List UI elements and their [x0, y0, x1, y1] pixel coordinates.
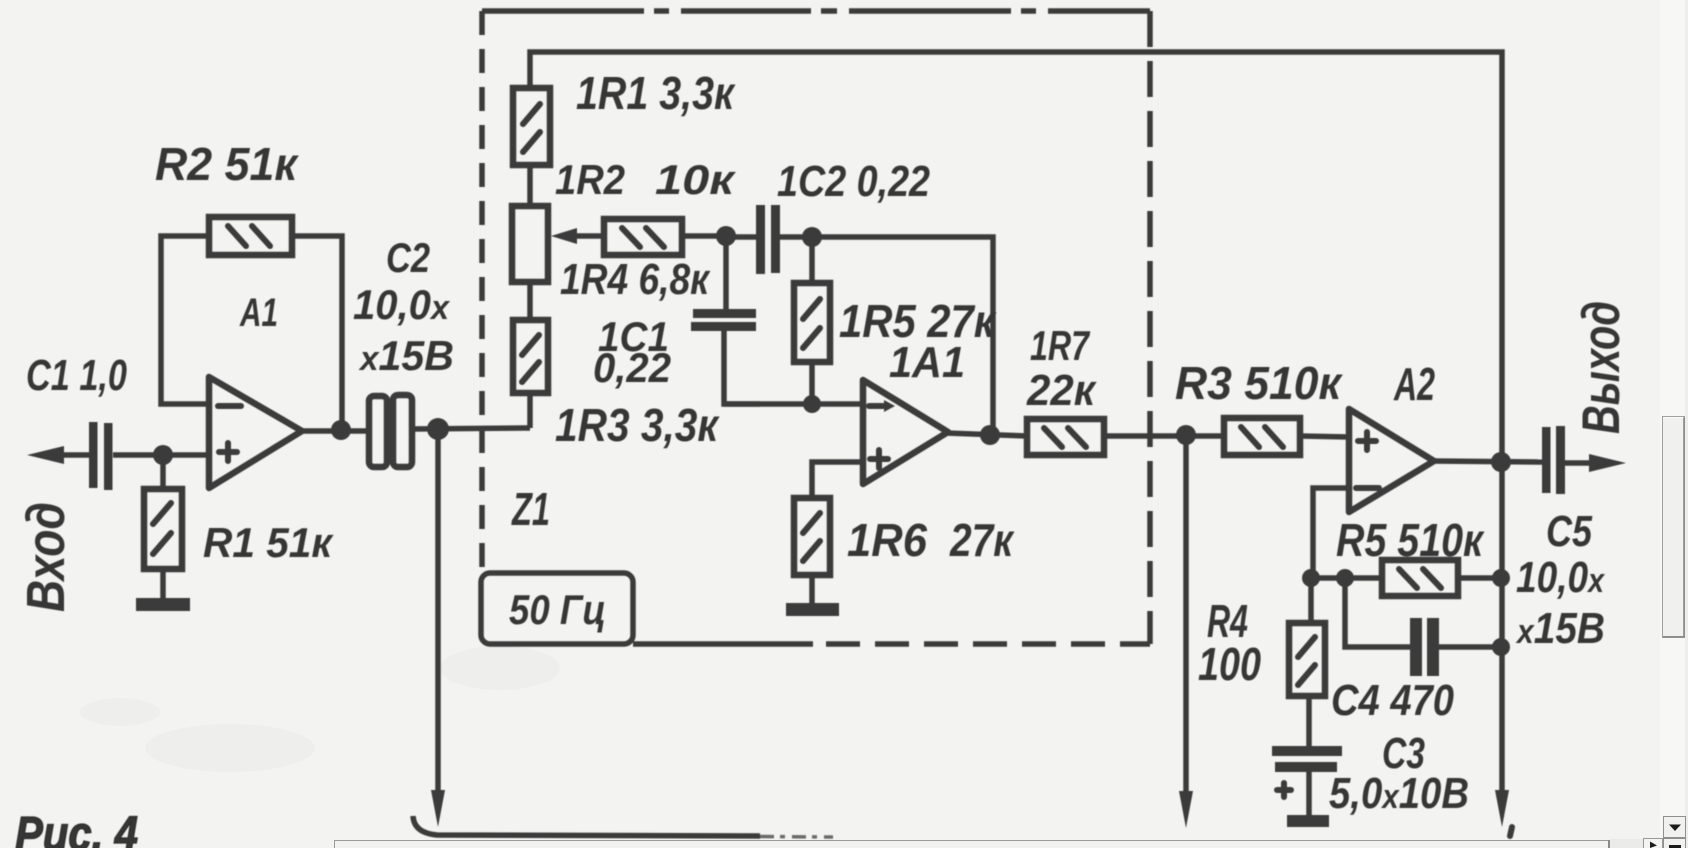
- svg-text:R2 51к: R2 51к: [155, 138, 300, 190]
- svg-text:A1: A1: [239, 291, 278, 335]
- node 1R4/1C1/1C2 junction: [716, 226, 736, 246]
- svg-text:1R7: 1R7: [1030, 322, 1090, 369]
- label C3 5,0x10В: [1329, 729, 1469, 818]
- node 1A1 minus input junction: [803, 395, 821, 413]
- svg-text:100: 100: [1198, 638, 1261, 690]
- label 1C1 0,22: [593, 313, 671, 391]
- top feedback wire A2 output to 1R1: [530, 52, 1502, 462]
- resistor R5: [1311, 560, 1502, 596]
- svg-text:1R2: 1R2: [555, 156, 625, 203]
- node A2 output: [1491, 452, 1511, 472]
- speck: [1510, 827, 1512, 836]
- resistor R1: [144, 455, 182, 600]
- node after C2: [427, 418, 449, 440]
- svg-text:C5: C5: [1546, 507, 1592, 556]
- wire A2 output: [1432, 461, 1543, 462]
- capacitor C5: [1542, 426, 1565, 494]
- wire node to A1 plus input: [163, 452, 209, 458]
- bottom scrollbar track piece: [1610, 839, 1643, 848]
- filter block Z1 dashed box: [482, 11, 1150, 644]
- svg-text:5,0x10В: 5,0x10В: [1329, 769, 1469, 818]
- bottom horizontal scrollbar long thumb: [335, 840, 1610, 848]
- bottom right arrow button: [1644, 839, 1663, 848]
- vertical scrollbar down button: [1664, 817, 1686, 838]
- capacitor C3 electrolytic: [1272, 746, 1342, 827]
- svg-text:0,22: 0,22: [593, 344, 671, 391]
- op-amp A1: [209, 377, 302, 488]
- node 1C2 right junction: [802, 227, 822, 247]
- output terminal arrow Выход: [1565, 454, 1626, 472]
- bottom corner button: [1664, 839, 1686, 848]
- label C2 10,0x x15В: [353, 234, 454, 379]
- node C4 branch junction: [1336, 569, 1354, 587]
- wire down from R3 node with arrow: [1179, 435, 1193, 828]
- svg-text:1C2 0,22: 1C2 0,22: [777, 157, 930, 206]
- resistor 1R1: [513, 88, 550, 206]
- svg-text:1R1 3,3к: 1R1 3,3к: [576, 67, 736, 119]
- wire 1A1 output: [946, 433, 1027, 436]
- wire A2 minus feedback: [1313, 488, 1349, 578]
- resistor 1R7: [1027, 419, 1104, 455]
- input terminal arrow Вход: [27, 446, 90, 464]
- svg-text:10к: 10к: [655, 156, 736, 203]
- svg-text:Рис. 4: Рис. 4: [15, 808, 138, 848]
- capacitor 1C1: [691, 236, 760, 404]
- resistor R4: [1289, 578, 1325, 748]
- resistor R3: [1224, 418, 1349, 455]
- resistor 1R6: [794, 498, 830, 604]
- svg-text:Выход: Выход: [1572, 301, 1631, 434]
- wire C2 to Z1 input: [412, 428, 530, 429]
- label R4 100: [1198, 595, 1261, 690]
- svg-text:50 Гц: 50 Гц: [509, 586, 606, 633]
- wire 1R7 to R3: [1104, 433, 1224, 439]
- capacitor C1: [89, 422, 163, 490]
- resistor R2: [209, 217, 292, 255]
- right scrollbar track: [1660, 0, 1688, 848]
- op-amp A2: [1349, 409, 1434, 512]
- svg-text:C2: C2: [386, 234, 430, 281]
- svg-text:R5 510к: R5 510к: [1336, 514, 1485, 566]
- svg-text:22к: 22к: [1026, 366, 1098, 415]
- capacitor 1C2: [726, 205, 812, 274]
- svg-text:1R3 3,3к: 1R3 3,3к: [555, 399, 720, 451]
- node C4 right on output line: [1492, 638, 1510, 656]
- svg-text:C4 470: C4 470: [1331, 676, 1454, 725]
- ground below 1R6: [786, 603, 839, 616]
- svg-text:1R6: 1R6: [847, 514, 927, 566]
- node R5 right on output line: [1492, 569, 1510, 587]
- vertical scrollbar thumb: [1663, 417, 1686, 638]
- ground below R1: [136, 598, 190, 611]
- wire down from C2 node with arrow: [431, 429, 445, 827]
- capacitor C4: [1345, 578, 1502, 676]
- svg-text:Вход: Вход: [16, 502, 76, 612]
- resistor 1R3: [513, 320, 548, 428]
- node input junction: [153, 445, 173, 465]
- svg-text:x15В: x15В: [358, 332, 454, 379]
- node before R3: [1176, 425, 1196, 445]
- node R5 left junction: [1302, 569, 1320, 587]
- op-amp 1A1: [863, 380, 948, 484]
- svg-text:1R4 6,8к: 1R4 6,8к: [560, 255, 711, 304]
- 50 Гц box: [481, 573, 633, 644]
- potentiometer 1R2: [512, 206, 548, 320]
- svg-text:27к: 27к: [949, 514, 1015, 566]
- svg-text:A2: A2: [1393, 358, 1435, 410]
- wire 1A1 feedback from output node: [812, 237, 993, 430]
- label 1R6 27к: [847, 514, 1015, 566]
- right scrollbar dither strip: [1685, 0, 1688, 848]
- wiper arrow of 1R2: [551, 228, 604, 244]
- svg-text:R3 510к: R3 510к: [1175, 357, 1344, 409]
- svg-text:C1 1,0: C1 1,0: [26, 351, 127, 400]
- resistor 1R5: [794, 237, 830, 404]
- node 1A1 output: [980, 425, 1000, 445]
- bottom curved line: [413, 816, 833, 837]
- svg-text:1A1: 1A1: [889, 338, 965, 387]
- capacitor C2: [369, 395, 412, 467]
- svg-text:R1 51к: R1 51к: [203, 519, 334, 566]
- wire A1 minus feedback left: [161, 236, 209, 404]
- svg-text:Z1: Z1: [511, 483, 550, 535]
- resistor 1R4: [604, 219, 726, 255]
- wire R2 right to A1 output: [292, 236, 342, 430]
- wire A2 output down with arrow: [1495, 462, 1509, 827]
- node A1 output: [331, 420, 351, 440]
- svg-text:10,0x: 10,0x: [353, 281, 451, 328]
- wire A1 output: [300, 428, 369, 434]
- wire 1C1 to 1A1 minus input: [724, 401, 863, 407]
- wire 1A1 plus input: [812, 462, 863, 498]
- label C5 10,0x x15В: [1515, 507, 1606, 653]
